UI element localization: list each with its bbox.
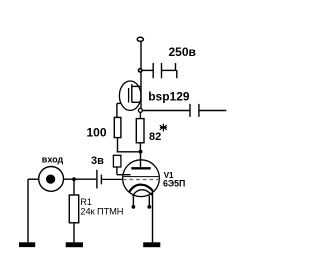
svg-text:3в: 3в (91, 155, 104, 167)
svg-text:вход: вход (42, 155, 64, 165)
svg-text:6Э5П: 6Э5П (163, 179, 185, 189)
svg-text:24к ПТМН: 24к ПТМН (80, 207, 123, 217)
svg-text:100: 100 (87, 126, 107, 140)
svg-text:250в: 250в (169, 45, 196, 59)
svg-text:bsp129: bsp129 (148, 89, 190, 103)
svg-text:82: 82 (149, 131, 161, 143)
